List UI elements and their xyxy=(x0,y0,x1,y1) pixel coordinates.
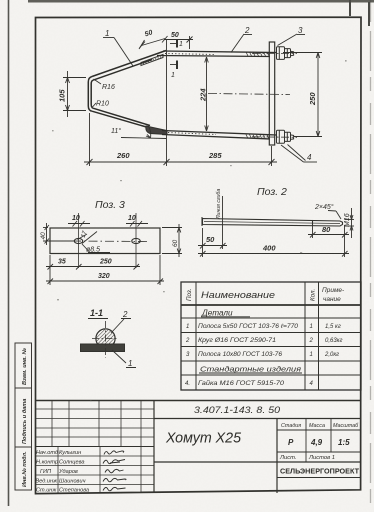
svg-text:60: 60 xyxy=(172,239,179,247)
svg-text:Шаинович: Шаинович xyxy=(59,479,86,485)
plate P3 (end view) xyxy=(269,42,274,145)
svg-text:1: 1 xyxy=(310,352,313,358)
svg-text:Поз.: Поз. xyxy=(186,289,193,301)
bottom rod centerline xyxy=(252,136,297,139)
svg-text:2,0кг: 2,0кг xyxy=(324,352,339,358)
svg-text:Наименование: Наименование xyxy=(201,290,275,301)
svg-text:Хомут Х25: Хомут Х25 xyxy=(165,430,242,447)
svg-text:4: 4 xyxy=(307,153,312,162)
subheader Детали xyxy=(201,309,250,318)
svg-text:10: 10 xyxy=(72,215,80,222)
svg-text:1,5 кг: 1,5 кг xyxy=(325,324,341,330)
left signature grid xyxy=(35,401,154,494)
svg-text:10: 10 xyxy=(128,215,136,222)
svg-text:Подпись и дата: Подпись и дата xyxy=(22,399,28,444)
bottom rod thread hatch xyxy=(246,135,269,140)
svg-text:Приме-: Приме- xyxy=(322,287,345,294)
svg-text:1: 1 xyxy=(310,324,313,330)
dimension 35 (pos3) xyxy=(46,255,82,271)
signature squiggles xyxy=(103,451,126,491)
radius label R16 xyxy=(94,79,115,91)
dimension 50 (to bend) xyxy=(164,36,193,49)
dimension 400 (pos2) xyxy=(198,249,349,257)
dimension 40 (pos3 left) xyxy=(43,223,74,245)
svg-text:4,9: 4,9 xyxy=(310,438,323,447)
svg-text:2: 2 xyxy=(185,338,190,344)
svg-text:чание: чание xyxy=(323,296,341,303)
nuts M16 bottom xyxy=(277,130,294,143)
svg-text:2: 2 xyxy=(309,338,314,344)
svg-text:Ст.инж: Ст.инж xyxy=(36,488,57,494)
svg-text:1: 1 xyxy=(179,41,183,48)
svg-text:Вед.инж: Вед.инж xyxy=(36,479,59,485)
header Примечание xyxy=(322,287,345,303)
svg-text:1-1: 1-1 xyxy=(90,308,103,318)
chamfer label 2x45 xyxy=(314,203,341,219)
plate horizontal centerline xyxy=(72,240,148,243)
svg-text:Кулыгин: Кулыгин xyxy=(59,450,81,456)
band P1 top taper edges xyxy=(92,51,166,81)
angle 11 deg xyxy=(121,126,166,139)
svg-text:260: 260 xyxy=(116,151,130,160)
row 4 xyxy=(185,380,314,387)
svg-text:0,63кг: 0,63кг xyxy=(325,338,343,344)
top rod (P2) xyxy=(157,51,277,57)
row 1 xyxy=(186,323,341,330)
section centerline vertical xyxy=(105,321,107,358)
svg-text:1: 1 xyxy=(186,324,189,330)
left margin stamp strip xyxy=(15,343,32,490)
Лист row xyxy=(279,455,335,461)
svg-text:80: 80 xyxy=(322,225,331,234)
svg-text:320: 320 xyxy=(98,273,110,280)
slot note 17 / ø8.5 xyxy=(82,232,110,253)
right slot hole xyxy=(132,213,140,268)
rod cross-section (hatched circle) xyxy=(96,329,115,348)
svg-text:50: 50 xyxy=(206,235,215,244)
svg-text:2×45°: 2×45° xyxy=(314,203,334,211)
svg-text:Гайка М16 ГОСТ 5915-70: Гайка М16 ГОСТ 5915-70 xyxy=(198,380,285,387)
band P1 bottom taper edges xyxy=(92,108,155,129)
svg-text:Поз. 2: Поз. 2 xyxy=(257,186,287,198)
leader label 4 xyxy=(281,145,317,163)
dimension 50 (slanted, band end) xyxy=(139,36,168,49)
dimension 320 (pos3) xyxy=(46,255,164,285)
svg-text:Полоса 10х80 ГОСТ 103-76: Полоса 10х80 ГОСТ 103-76 xyxy=(198,352,283,358)
svg-text:1: 1 xyxy=(171,72,175,79)
svg-text:2: 2 xyxy=(122,310,128,319)
svg-text:Взам. инв. №: Взам. инв. № xyxy=(22,347,28,385)
subheader Стандартные изделия xyxy=(199,365,302,374)
svg-text:Листов 1: Листов 1 xyxy=(308,455,335,461)
plate P3 outline xyxy=(50,228,160,254)
dimension 250 xyxy=(283,53,322,137)
nuts M16 top xyxy=(277,47,294,60)
svg-text:Линия сгиба: Линия сгиба xyxy=(216,189,222,220)
bottom rod (P2) xyxy=(162,131,277,140)
scan specks xyxy=(52,60,347,401)
svg-text:Полоса 5х50 ГОСТ 103-76 ℓ=770: Полоса 5х50 ГОСТ 103-76 ℓ=770 xyxy=(198,323,299,330)
svg-text:224: 224 xyxy=(199,88,208,102)
svg-text:40: 40 xyxy=(40,232,47,240)
rod P2 outline xyxy=(202,217,343,226)
signature names xyxy=(36,450,90,494)
top scan smudge xyxy=(28,0,374,3)
svg-text:Круг Ø16 ГОСТ 2590-71: Круг Ø16 ГОСТ 2590-71 xyxy=(198,338,276,344)
svg-text:250: 250 xyxy=(308,92,317,106)
svg-text:50: 50 xyxy=(171,32,179,39)
dimension 260 / 285 xyxy=(84,40,277,166)
svg-text:105: 105 xyxy=(58,89,67,102)
band end overlap on bottom rod (wedge) xyxy=(146,126,167,135)
svg-text:1:5: 1:5 xyxy=(338,438,350,447)
svg-text:400: 400 xyxy=(262,244,276,253)
svg-text:Стадия: Стадия xyxy=(281,423,301,429)
left slot hole xyxy=(74,213,82,268)
top right scan marks xyxy=(350,0,369,26)
svg-text:М16: М16 xyxy=(344,213,351,227)
rod mid line xyxy=(204,222,340,224)
svg-text:35: 35 xyxy=(58,259,66,266)
svg-text:2: 2 xyxy=(244,26,250,35)
row 3 xyxy=(186,352,339,358)
thread label M16 xyxy=(345,208,355,238)
section cut marks 1-1 xyxy=(170,40,177,70)
svg-text:285: 285 xyxy=(208,151,222,160)
svg-text:Степанова: Степанова xyxy=(59,488,89,494)
band P1 left U-end outline xyxy=(88,77,93,112)
top rod thread hatch xyxy=(246,52,269,56)
paper right edge line xyxy=(370,0,372,512)
svg-text:Стандартные изделия: Стандартные изделия xyxy=(200,365,301,374)
dimension 224 xyxy=(205,57,209,131)
parts table grid xyxy=(181,282,361,390)
svg-text:3: 3 xyxy=(298,26,303,35)
svg-text:Масса: Масса xyxy=(309,423,325,429)
svg-text:Солнцева: Солнцева xyxy=(59,460,84,466)
dimension 10 left hole xyxy=(68,221,90,227)
paper left edge line xyxy=(8,0,10,506)
leader label 3 xyxy=(278,26,306,46)
svg-text:Масштаб: Масштаб xyxy=(333,423,359,429)
section leader label 2 xyxy=(111,310,131,333)
radius label R10 xyxy=(93,101,109,108)
svg-text:1: 1 xyxy=(128,359,132,368)
top rod centerline xyxy=(252,53,297,55)
svg-text:Ударов: Ударов xyxy=(58,469,78,475)
svg-text:R16: R16 xyxy=(102,84,115,91)
top rod overlap dots xyxy=(165,54,215,55)
svg-text:Детали: Детали xyxy=(201,309,233,318)
svg-text:R10: R10 xyxy=(96,101,109,108)
center axis line xyxy=(208,94,290,95)
svg-text:250: 250 xyxy=(99,259,112,266)
svg-text:11°: 11° xyxy=(111,127,121,135)
svg-text:Нач.отд: Нач.отд xyxy=(36,450,58,456)
svg-text:Р: Р xyxy=(288,438,294,447)
bend line (линия сгиба) xyxy=(222,196,224,232)
svg-text:1: 1 xyxy=(105,29,109,38)
svg-text:ГИП: ГИП xyxy=(40,469,52,475)
svg-text:Поз. 3: Поз. 3 xyxy=(95,199,125,211)
dimension 80 (pos2) xyxy=(308,226,349,257)
dimension 10 right hole xyxy=(126,221,148,227)
svg-text:4.: 4. xyxy=(185,381,190,387)
dimension 105 xyxy=(63,71,86,117)
section title 1-1 xyxy=(88,308,108,319)
svg-text:Лист.: Лист. xyxy=(279,455,296,461)
section centerline horizontal xyxy=(92,338,119,340)
band cross-section (dark bar) xyxy=(81,344,125,352)
dimension 60 (pos3 right) xyxy=(162,224,182,257)
bottom rod overlap dots xyxy=(168,133,216,135)
svg-text:ø8.5: ø8.5 xyxy=(86,247,100,254)
svg-text:3.407.1-143. 8. 50: 3.407.1-143. 8. 50 xyxy=(194,405,281,415)
dimension 50 (pos2) xyxy=(198,228,227,249)
leader label 1 xyxy=(103,29,133,66)
svg-text:Инв.№ подл.: Инв.№ подл. xyxy=(22,451,28,487)
leader label 2 xyxy=(231,26,252,53)
svg-text:Кол.: Кол. xyxy=(310,289,317,301)
section leader label 1 xyxy=(112,350,136,368)
band end overlap on top rod xyxy=(141,55,163,66)
title block grid xyxy=(35,401,361,494)
svg-text:Н.контр: Н.контр xyxy=(36,460,58,466)
row 2 xyxy=(185,338,343,344)
svg-text:СЕЛЬЭНЕРГОПРОЕКТ: СЕЛЬЭНЕРГОПРОЕКТ xyxy=(280,467,359,476)
